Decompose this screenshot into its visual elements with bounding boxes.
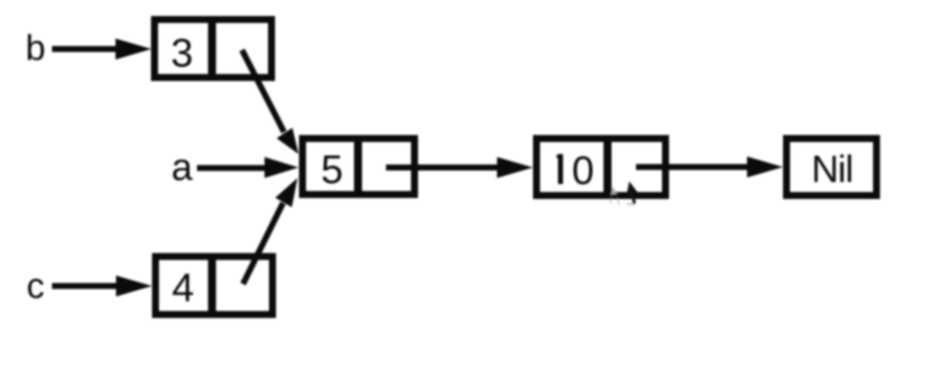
node D box (value 10 + pointer cell) — [537, 135, 666, 199]
mouse cursor ghost — [610, 187, 618, 196]
node A box (value 5 + pointer cell) — [303, 135, 415, 198]
svg-text:b: b — [25, 27, 45, 68]
arrow a — [197, 157, 299, 178]
wire node B pointer to node A — [242, 50, 299, 154]
svg-text:0: 0 — [572, 149, 594, 193]
svg-text:3: 3 — [171, 32, 193, 76]
node B box (value 3 + pointer cell) — [155, 16, 272, 81]
mouse cursor ghost trails — [611, 198, 620, 206]
svg-text:c: c — [27, 265, 45, 306]
Nil box — [787, 139, 877, 196]
svg-text:a: a — [171, 147, 193, 189]
node C box (value 4 + pointer cell) — [156, 253, 273, 318]
wire node C pointer to node A — [243, 178, 298, 284]
arrow b — [52, 39, 152, 60]
value 10 digit 1 — [558, 154, 563, 184]
mouse cursor — [626, 181, 637, 204]
wire node A pointer to node D — [386, 157, 533, 178]
svg-text:Nil: Nil — [811, 149, 852, 191]
svg-text:5: 5 — [321, 148, 343, 192]
arrow c — [52, 276, 152, 297]
svg-text:4: 4 — [172, 266, 194, 310]
wire node D pointer to Nil — [636, 157, 783, 178]
mouse cursor shadow smudge — [626, 203, 636, 206]
